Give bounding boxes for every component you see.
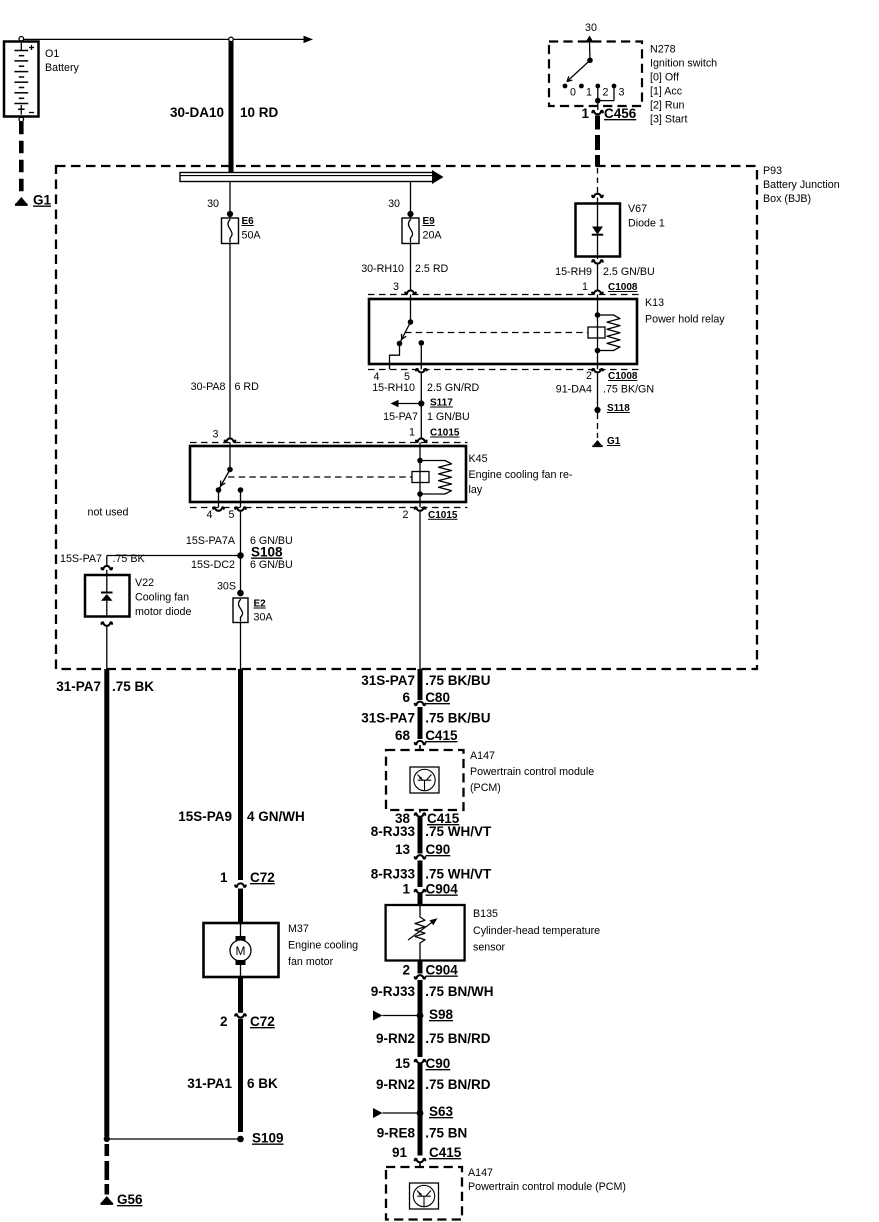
svg-text:C72: C72 bbox=[250, 870, 275, 885]
wire 15-RH10 2.5 GN/RD bbox=[420, 374, 422, 440]
svg-text:.75 BK/GN: .75 BK/GN bbox=[603, 384, 654, 396]
svg-text:.75 WH/VT: .75 WH/VT bbox=[425, 824, 492, 839]
wire bus bar to fuse E9 bbox=[407, 182, 413, 219]
svg-text:2.5 RD: 2.5 RD bbox=[415, 263, 449, 275]
svg-text:N278: N278 bbox=[650, 44, 676, 56]
connector line C1015 (top of K45) bbox=[190, 438, 468, 442]
svg-text:91-DA4: 91-DA4 bbox=[556, 384, 592, 396]
svg-text:2: 2 bbox=[402, 963, 410, 978]
fuse E9 20A bbox=[402, 216, 442, 244]
wire 31S-PA7 .75 BK/BU (second, thick) bbox=[418, 707, 423, 739]
pin labels 4 5 (K13) bbox=[374, 371, 411, 383]
svg-text:0: 0 bbox=[570, 87, 576, 99]
svg-text:.75 BK/BU: .75 BK/BU bbox=[425, 673, 490, 688]
label 31S-PA7 .75 BK/BU bbox=[361, 673, 490, 688]
label A147 Powertrain control module (PCM) bbox=[470, 750, 594, 794]
label M37 Engine cooling fan motor bbox=[288, 923, 358, 968]
pin 3 label (K45) bbox=[213, 429, 219, 441]
label V67 Diode 1 bbox=[628, 203, 665, 230]
svg-text:C72: C72 bbox=[250, 1014, 275, 1029]
svg-text:15S-DC2: 15S-DC2 bbox=[191, 559, 235, 571]
wire 9-RJ33 .75 BN/WH (thick) bbox=[418, 980, 423, 1057]
svg-text:91: 91 bbox=[392, 1145, 408, 1160]
svg-text:4: 4 bbox=[374, 371, 380, 383]
svg-text:.75 BK/BU: .75 BK/BU bbox=[425, 711, 490, 726]
splice S63 bbox=[373, 1104, 454, 1119]
svg-text:9-RN2: 9-RN2 bbox=[376, 1077, 415, 1092]
svg-text:1: 1 bbox=[581, 106, 589, 121]
battery junction box P93 (dashed boundary) bbox=[56, 166, 757, 669]
wire 8-RJ33 .75 WH/VT (thick) bbox=[418, 818, 423, 854]
svg-text:Cooling fan: Cooling fan bbox=[135, 592, 189, 604]
svg-text:30-RH10: 30-RH10 bbox=[361, 263, 404, 275]
splice S108 bbox=[237, 545, 283, 560]
svg-text:30: 30 bbox=[585, 22, 597, 34]
svg-text:1: 1 bbox=[586, 87, 592, 99]
label 30-RH10 2.5 RD bbox=[361, 263, 448, 275]
splice S109 bbox=[104, 1131, 284, 1146]
svg-text:lay: lay bbox=[469, 484, 483, 496]
label 15S-PA7A 6 GN/BU bbox=[186, 535, 293, 547]
svg-text:1: 1 bbox=[582, 281, 588, 293]
svg-text:S109: S109 bbox=[252, 1131, 284, 1146]
motor M37 engine cooling fan motor bbox=[204, 923, 279, 977]
svg-text:E6: E6 bbox=[242, 216, 255, 227]
svg-text:1: 1 bbox=[220, 870, 228, 885]
label K45 Engine cooling fan relay bbox=[469, 453, 573, 496]
svg-text:Box (BJB): Box (BJB) bbox=[763, 193, 811, 205]
svg-text:15S-PA7A: 15S-PA7A bbox=[186, 535, 236, 547]
svg-text:C415: C415 bbox=[429, 1145, 462, 1160]
svg-text:C904: C904 bbox=[426, 882, 459, 897]
svg-text:30S: 30S bbox=[217, 581, 236, 593]
svg-text:3: 3 bbox=[213, 429, 219, 441]
svg-text:(PCM): (PCM) bbox=[470, 782, 501, 794]
svg-text:C456: C456 bbox=[604, 106, 637, 121]
label 30S bbox=[217, 581, 236, 593]
ground G1 (BJB) bbox=[592, 436, 620, 447]
svg-text:4 GN/WH: 4 GN/WH bbox=[247, 809, 305, 824]
module A147 PCM (first) bbox=[386, 750, 464, 810]
svg-text:Powertrain control module: Powertrain control module bbox=[470, 766, 594, 778]
connector C72 pin 2 bbox=[220, 977, 275, 1029]
svg-text:20A: 20A bbox=[423, 230, 443, 242]
svg-text:S63: S63 bbox=[429, 1104, 454, 1119]
label 9-RN2 .75 BN/RD bbox=[376, 1031, 491, 1046]
svg-text:C1015: C1015 bbox=[428, 510, 458, 521]
wire S108 to V22 (15S-PA7 .75 BK) bbox=[107, 556, 241, 566]
svg-text:8-RJ33: 8-RJ33 bbox=[371, 867, 416, 882]
pin 30 label (E6) bbox=[207, 198, 219, 210]
label 31-PA1 6 BK bbox=[187, 1076, 278, 1091]
svg-text:2: 2 bbox=[220, 1014, 228, 1029]
splice S118 bbox=[594, 403, 630, 414]
svg-text:2.5 GN/BU: 2.5 GN/BU bbox=[603, 266, 655, 278]
label V22 Cooling fan motor diode bbox=[135, 577, 191, 618]
relay K13 Power hold relay bbox=[369, 295, 637, 370]
svg-text:G1: G1 bbox=[33, 193, 52, 208]
wire 91-DA4 .75 BK/GN bbox=[597, 374, 599, 408]
ignition switch N278 bbox=[549, 22, 642, 110]
label 30-PA8 6 RD bbox=[191, 381, 259, 393]
svg-text:P93: P93 bbox=[763, 165, 782, 177]
svg-text:5: 5 bbox=[404, 371, 410, 383]
svg-text:S108: S108 bbox=[251, 545, 283, 560]
wire C456 to BJB (thick dashed) bbox=[595, 116, 600, 167]
svg-text:2: 2 bbox=[603, 87, 609, 99]
svg-text:68: 68 bbox=[395, 728, 411, 743]
connector line C1008 (bottom of K13) bbox=[368, 369, 640, 372]
svg-text:9-RE8: 9-RE8 bbox=[377, 1126, 416, 1141]
svg-text:15: 15 bbox=[395, 1056, 411, 1071]
svg-text:31-PA1: 31-PA1 bbox=[187, 1076, 232, 1091]
label 15-PA7 1 GN/BU bbox=[383, 411, 470, 423]
svg-text:.75 BN/WH: .75 BN/WH bbox=[425, 984, 493, 999]
svg-text:30-DA10: 30-DA10 bbox=[170, 105, 224, 120]
module A147 PCM (second) bbox=[386, 1167, 462, 1220]
svg-text:C80: C80 bbox=[425, 690, 450, 705]
fuse E6 50A bbox=[222, 216, 262, 244]
svg-text:Engine cooling: Engine cooling bbox=[288, 940, 358, 952]
label 8-RJ33 .75 WH/VT bbox=[371, 824, 492, 839]
svg-text:6 GN/BU: 6 GN/BU bbox=[250, 559, 293, 571]
label 8-RJ33 .75 WH/VT (second) bbox=[371, 867, 492, 882]
label 15S-PA7 .75 BK bbox=[60, 553, 145, 565]
svg-text:13: 13 bbox=[395, 842, 411, 857]
svg-text:V22: V22 bbox=[135, 577, 154, 589]
connector C904 pin 2 bbox=[402, 961, 458, 979]
wire ignition to V67 (dashed) bbox=[597, 168, 599, 193]
svg-text:E2: E2 bbox=[254, 599, 267, 610]
svg-text:S117: S117 bbox=[430, 398, 453, 409]
svg-text:A147: A147 bbox=[470, 750, 495, 762]
svg-text:.75 BK: .75 BK bbox=[112, 679, 154, 694]
svg-text:M: M bbox=[236, 944, 246, 958]
svg-text:Diode 1: Diode 1 bbox=[628, 218, 665, 230]
svg-text:Engine cooling fan re-: Engine cooling fan re- bbox=[469, 469, 573, 481]
svg-text:30A: 30A bbox=[254, 612, 274, 624]
svg-text:50A: 50A bbox=[242, 230, 262, 242]
svg-text:.75 WH/VT: .75 WH/VT bbox=[425, 867, 492, 882]
svg-text:V67: V67 bbox=[628, 203, 647, 215]
svg-text:6 RD: 6 RD bbox=[235, 381, 260, 393]
svg-text:C90: C90 bbox=[426, 1056, 451, 1071]
label A147 Powertrain control module (PCM) (second) bbox=[468, 1167, 626, 1193]
svg-text:31-PA7: 31-PA7 bbox=[56, 679, 101, 694]
svg-text:Cylinder-head temperature: Cylinder-head temperature bbox=[473, 925, 600, 937]
svg-text:1: 1 bbox=[409, 427, 415, 439]
ground G56 bbox=[101, 1192, 144, 1207]
svg-text:C904: C904 bbox=[426, 963, 459, 978]
svg-text:C415: C415 bbox=[425, 728, 458, 743]
svg-text:15S-PA7: 15S-PA7 bbox=[60, 553, 102, 565]
svg-text:15S-PA9: 15S-PA9 bbox=[178, 809, 232, 824]
wire S118 to G1 (dashed) bbox=[597, 413, 599, 438]
svg-text:15-PA7: 15-PA7 bbox=[383, 411, 418, 423]
pin 2 connector C1008 (K13) bbox=[586, 370, 638, 382]
svg-text:1: 1 bbox=[402, 882, 410, 897]
svg-text:30-PA8: 30-PA8 bbox=[191, 381, 226, 393]
connector C1008 pin 1 bbox=[582, 281, 638, 293]
svg-text:S98: S98 bbox=[429, 1007, 454, 1022]
wire battery negative (thick dashed to ground) bbox=[19, 122, 24, 196]
wire 31S-PA7 .75 BK/BU (thick) bbox=[418, 669, 423, 700]
pin 30 label (E9) bbox=[388, 198, 400, 210]
connector C415 pin 68 bbox=[395, 728, 458, 750]
svg-text:Power hold relay: Power hold relay bbox=[645, 314, 725, 326]
svg-text:not used: not used bbox=[88, 507, 129, 519]
svg-text:sensor: sensor bbox=[473, 942, 506, 954]
wire 8-RJ33 .75 WH/VT (second, thick) bbox=[418, 861, 423, 888]
svg-text:1 GN/BU: 1 GN/BU bbox=[427, 411, 470, 423]
wire 30-RH10 2.5 RD bbox=[410, 244, 412, 292]
wire 31-PA7 .75 BK (thick) bbox=[104, 669, 109, 1137]
svg-text:[1] Acc: [1] Acc bbox=[650, 86, 683, 98]
svg-text:M37: M37 bbox=[288, 923, 309, 935]
svg-text:.75 BN/RD: .75 BN/RD bbox=[425, 1077, 491, 1092]
ground G1 (battery) bbox=[15, 193, 52, 208]
svg-text:2: 2 bbox=[403, 509, 409, 521]
connector C415 pin 38 bbox=[395, 810, 460, 826]
svg-text:fan motor: fan motor bbox=[288, 956, 334, 968]
connector C456 pin 1 bbox=[581, 106, 636, 121]
svg-text:A147: A147 bbox=[468, 1167, 493, 1179]
svg-text:B135: B135 bbox=[473, 908, 498, 920]
svg-text:30: 30 bbox=[207, 198, 219, 210]
connector C90 pin 13 bbox=[395, 842, 450, 859]
label 9-RN2 .75 BN/RD (second) bbox=[376, 1077, 491, 1092]
label K13 Power hold relay bbox=[645, 297, 725, 326]
svg-text:C1008: C1008 bbox=[608, 371, 638, 382]
svg-text:[2] Run: [2] Run bbox=[650, 100, 685, 112]
label B135 Cylinder-head temperature sensor bbox=[473, 908, 600, 954]
svg-text:9-RN2: 9-RN2 bbox=[376, 1031, 415, 1046]
svg-text:Powertrain control module (PCM: Powertrain control module (PCM) bbox=[468, 1181, 626, 1193]
svg-text:O1: O1 bbox=[45, 48, 59, 60]
svg-text:15-RH9: 15-RH9 bbox=[555, 266, 592, 278]
relay K45 engine cooling fan relay bbox=[190, 443, 466, 508]
connector C1015 pin 1 bbox=[409, 427, 460, 439]
connector at V67 output bbox=[592, 260, 603, 291]
svg-text:[3] Start: [3] Start bbox=[650, 114, 687, 126]
label 30-DA10 10 RD bbox=[170, 105, 279, 120]
svg-text:3: 3 bbox=[393, 281, 399, 293]
wire 15S-PA9 4 GN/WH (thick) bbox=[238, 669, 243, 880]
label 9-RE8 .75 BN bbox=[377, 1126, 467, 1141]
svg-text:31S-PA7: 31S-PA7 bbox=[361, 711, 415, 726]
svg-text:motor diode: motor diode bbox=[135, 606, 191, 618]
fuse E2 30A bbox=[233, 590, 273, 624]
splice S98 bbox=[373, 1007, 454, 1022]
label 31S-PA7 .75 BK/BU (second) bbox=[361, 711, 490, 726]
wire V22 to BJB edge bbox=[106, 626, 108, 669]
connector C415 pin 91 bbox=[392, 1145, 462, 1167]
wire bus bar to fuse E6 bbox=[227, 182, 233, 219]
svg-text:C1015: C1015 bbox=[430, 428, 460, 439]
label 15-RH10 2.5 GN/RD bbox=[372, 382, 479, 394]
wire battery positive feed (horizontal) bbox=[24, 36, 313, 44]
bus bar (battery feed) bbox=[180, 170, 444, 184]
svg-text:Battery: Battery bbox=[45, 62, 80, 74]
label 15S-PA9 4 GN/WH bbox=[178, 809, 305, 824]
connector C80 pin 6 bbox=[402, 690, 449, 705]
connector line C1015 (bottom of K45) bbox=[190, 507, 468, 510]
splice S117 bbox=[391, 398, 454, 409]
svg-text:15-RH10: 15-RH10 bbox=[372, 382, 415, 394]
svg-text:2.5 GN/RD: 2.5 GN/RD bbox=[427, 382, 480, 394]
wire S109 to G56 (thick dashed) bbox=[105, 1144, 110, 1195]
wire 30-PA8 6 RD bbox=[229, 244, 231, 440]
svg-text:6 BK: 6 BK bbox=[247, 1076, 278, 1091]
wire 15S-PA7A 6 GN/BU bbox=[240, 512, 242, 592]
battery label O1 bbox=[45, 48, 80, 74]
svg-text:[0] Off: [0] Off bbox=[650, 72, 679, 84]
connector C90 pin 15 bbox=[395, 1056, 450, 1071]
diode V67 Diode 1 bbox=[576, 194, 621, 259]
label N278 ignition switch bbox=[650, 44, 717, 126]
wire 31-PA1 6 BK (thick) bbox=[238, 1019, 243, 1132]
svg-text:8-RJ33: 8-RJ33 bbox=[371, 824, 416, 839]
battery O1 bbox=[4, 37, 39, 122]
svg-text:10 RD: 10 RD bbox=[240, 105, 279, 120]
svg-text:S118: S118 bbox=[607, 403, 630, 414]
wire E2 to BJB edge bbox=[240, 623, 242, 670]
label P93 Battery Junction Box bbox=[763, 165, 840, 205]
diode V22 cooling fan motor diode bbox=[85, 566, 130, 626]
label 15S-DC2 6 GN/BU bbox=[191, 559, 293, 571]
svg-text:G56: G56 bbox=[117, 1192, 143, 1207]
svg-text:K13: K13 bbox=[645, 297, 664, 309]
svg-text:Battery Junction: Battery Junction bbox=[763, 179, 840, 191]
svg-text:.75 BN/RD: .75 BN/RD bbox=[425, 1031, 491, 1046]
svg-text:31S-PA7: 31S-PA7 bbox=[361, 673, 415, 688]
pin labels 4 5 2 C1015 (K45 bottom) bbox=[207, 509, 458, 521]
svg-text:.75 BN: .75 BN bbox=[425, 1126, 467, 1141]
label 91-DA4 .75 BK/GN bbox=[556, 384, 654, 396]
svg-text:2: 2 bbox=[586, 370, 592, 382]
svg-text:K45: K45 bbox=[469, 453, 488, 465]
label not used bbox=[88, 507, 129, 519]
svg-text:30: 30 bbox=[388, 198, 400, 210]
svg-text:E9: E9 bbox=[423, 216, 436, 227]
svg-text:6: 6 bbox=[402, 690, 410, 705]
svg-text:5: 5 bbox=[229, 509, 235, 521]
svg-text:3: 3 bbox=[619, 87, 625, 99]
svg-text:9-RJ33: 9-RJ33 bbox=[371, 984, 416, 999]
wire 30-DA10 10 RD (thick battery feed) bbox=[229, 42, 234, 174]
wire K45 pin2 to BJB edge bbox=[419, 512, 421, 669]
svg-text:G1: G1 bbox=[607, 436, 621, 447]
connector line C1008 (top of K13) bbox=[368, 290, 640, 294]
pin 3 label (K13) bbox=[393, 281, 399, 293]
svg-text:C1008: C1008 bbox=[608, 282, 638, 293]
label 9-RJ33 .75 BN/WH bbox=[371, 984, 494, 999]
svg-text:Ignition switch: Ignition switch bbox=[650, 58, 717, 70]
connector C904 pin 1 bbox=[402, 882, 458, 906]
sensor B135 cylinder-head temperature sensor bbox=[386, 905, 465, 961]
svg-text:4: 4 bbox=[207, 509, 213, 521]
wire 9-RN2 .75 BN/RD (second, thick) bbox=[418, 1064, 423, 1156]
connector C72 pin 1 bbox=[220, 870, 275, 923]
label 15-RH9 2.5 GN/BU bbox=[555, 266, 655, 278]
label 31-PA7 .75 BK bbox=[56, 679, 154, 694]
svg-text:.75 BK: .75 BK bbox=[113, 553, 146, 565]
svg-text:C90: C90 bbox=[426, 842, 451, 857]
